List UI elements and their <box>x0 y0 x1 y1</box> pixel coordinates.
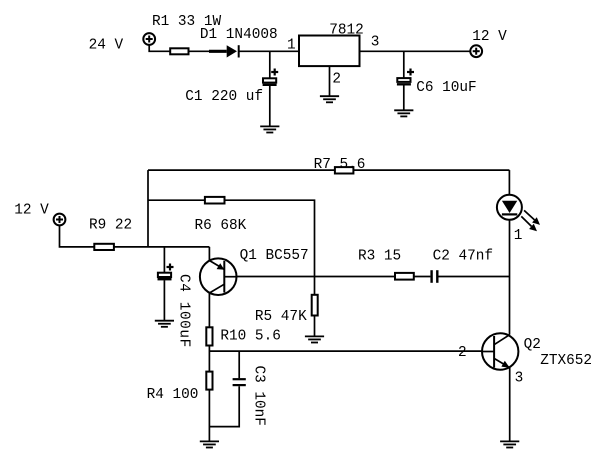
terminal 12V output <box>470 45 482 57</box>
wire C3 drop <box>238 351 240 378</box>
terminal 12V bottom left <box>54 214 66 226</box>
label Q1 BC557 <box>240 248 309 264</box>
label C2 47nf <box>433 249 493 265</box>
wire base rail to Q2 <box>209 350 482 352</box>
label R10 5.6 <box>220 329 280 345</box>
svg-text:D1 1N4008: D1 1N4008 <box>200 27 278 43</box>
svg-text:R5 47K: R5 47K <box>255 309 307 325</box>
wire R9 to Q1 emitter corner <box>114 246 209 248</box>
capacitor C1 <box>263 78 277 85</box>
wire C3 bottom link <box>209 386 239 426</box>
svg-text:C1 220 uf: C1 220 uf <box>185 89 263 105</box>
svg-text:Q2: Q2 <box>524 337 541 353</box>
wire R5 to ground <box>314 316 316 336</box>
terminal 24V input <box>143 33 155 45</box>
wire R10 to junction <box>208 345 210 371</box>
LED D2 <box>497 195 522 220</box>
pin 1 label <box>287 38 296 54</box>
wire R4 to ground <box>208 390 210 441</box>
svg-text:R3 15: R3 15 <box>358 249 401 265</box>
svg-text:12 V: 12 V <box>472 29 507 45</box>
svg-text:2: 2 <box>332 71 341 87</box>
wire C1 to ground <box>269 86 271 126</box>
wire top rail <box>148 169 509 171</box>
wire C4 to ground <box>163 280 165 320</box>
wire Q1 collector to R10 <box>208 293 210 327</box>
svg-text:R9 22: R9 22 <box>89 218 132 234</box>
capacitor C6 plus mark <box>407 69 414 76</box>
resistor R3 <box>395 273 414 280</box>
pin 2 label Q2 base <box>458 345 467 361</box>
resistor R6 <box>205 197 225 204</box>
svg-text:Q1 BC557: Q1 BC557 <box>240 248 309 264</box>
label R5 47K <box>255 309 307 325</box>
resistor R4 <box>206 372 212 390</box>
wire LED top drop <box>508 170 510 195</box>
capacitor C4 plus mark <box>167 264 174 271</box>
label R1 33 1W <box>152 14 221 30</box>
wire U1 pin2 to ground <box>329 66 331 96</box>
label R6 68K <box>195 218 247 234</box>
svg-text:12 V: 12 V <box>14 202 49 218</box>
pin 3 label Q2 emitter <box>515 371 524 387</box>
ground under C4 <box>155 321 174 327</box>
svg-text:3: 3 <box>515 371 524 387</box>
svg-text:C4 100uF: C4 100uF <box>176 274 192 348</box>
wire Q2 emitter to ground <box>509 368 511 441</box>
svg-text:7812: 7812 <box>329 23 364 39</box>
regulator U1 7812 box <box>299 36 360 67</box>
label C6 10uF <box>416 80 476 96</box>
label R9 22 <box>89 218 132 234</box>
svg-text:2: 2 <box>458 345 467 361</box>
label R7 5.6 <box>314 157 366 173</box>
wire left spine vertical <box>147 170 149 247</box>
label 12 V bottom <box>14 202 49 218</box>
label 12 V top <box>472 29 507 45</box>
label ZTX652 <box>540 353 592 369</box>
pin 3 label <box>371 35 380 51</box>
label Q2 <box>524 337 541 353</box>
ground under C6 <box>394 110 413 116</box>
svg-text:R10 5.6: R10 5.6 <box>220 329 280 345</box>
capacitor C2 <box>432 270 438 283</box>
wire terminal to R9 <box>60 225 95 247</box>
capacitor C1 plus mark <box>271 69 278 76</box>
label C1 220 uf <box>185 89 263 105</box>
label R3 15 <box>358 249 401 265</box>
wire C6 to ground <box>403 85 405 110</box>
diode D1 <box>209 45 239 57</box>
wire U1 pin3 to terminal 12V <box>360 50 471 52</box>
ground under C1 <box>260 126 279 132</box>
capacitor C6 <box>397 78 411 84</box>
resistor R5 <box>312 295 318 316</box>
label C3 10nF vertical <box>250 366 266 426</box>
label 7812 <box>329 23 364 39</box>
label 24 V <box>89 38 124 54</box>
wire junction to C1 <box>269 51 271 78</box>
resistor R7 <box>335 167 354 173</box>
capacitor C4 <box>158 273 172 280</box>
svg-text:C3 10nF: C3 10nF <box>250 366 266 426</box>
resistor R10 <box>206 327 212 345</box>
transistor Q1 <box>200 247 237 295</box>
label C4 100uF vertical <box>176 274 192 348</box>
svg-text:24 V: 24 V <box>89 38 124 54</box>
wire R5 drop <box>314 277 316 295</box>
transistor Q2 <box>482 333 518 369</box>
ground under R5 <box>305 336 324 342</box>
resistor R9 <box>94 244 114 250</box>
svg-text:3: 3 <box>371 35 380 51</box>
ground under Q2 <box>500 441 519 447</box>
svg-text:1: 1 <box>287 38 296 54</box>
label D1 1N4008 <box>200 27 278 43</box>
ground under R4 <box>200 441 219 447</box>
svg-text:R4 100: R4 100 <box>147 387 199 403</box>
wire R1 to D1 <box>189 50 211 52</box>
svg-text:1: 1 <box>514 228 523 244</box>
wire R6 rail <box>148 200 315 276</box>
LED light arrow 1 <box>524 210 540 225</box>
wire Q2 collector up to LED <box>509 220 511 335</box>
wire terminal 24V to R1 <box>149 45 170 51</box>
label R4 100 <box>147 387 199 403</box>
svg-text:ZTX652: ZTX652 <box>540 353 592 369</box>
svg-text:C2 47nf: C2 47nf <box>433 249 493 265</box>
wire C4 junction down <box>163 247 165 273</box>
ground under U1 pin2 <box>320 96 339 102</box>
wire D1 to U1 pin1 <box>239 50 299 52</box>
LED light arrow 2 <box>521 216 537 231</box>
pin 2 label <box>332 71 341 87</box>
wire Q1 base rail <box>237 276 510 278</box>
wire junction to C6 <box>403 51 405 78</box>
svg-text:R6 68K: R6 68K <box>195 218 247 234</box>
pin 1 label LED <box>514 228 523 244</box>
resistor R1 <box>170 48 188 54</box>
capacitor C3 <box>233 379 246 385</box>
svg-text:C6 10uF: C6 10uF <box>416 80 476 96</box>
